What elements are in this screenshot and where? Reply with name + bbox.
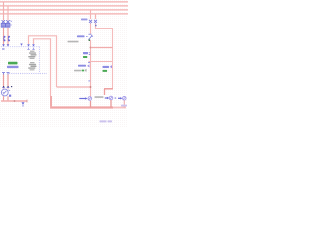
- wire below breaker pole1: [3, 28, 5, 45]
- dashed boundary bottom edge: [9, 73, 47, 75]
- wire under contact: [90, 40, 92, 97]
- device label blue box: [83, 52, 88, 54]
- tiny wire label dot: [95, 25, 97, 26]
- left bus end tick: [26, 100, 28, 103]
- mid label grey text: [74, 70, 81, 72]
- right label green: [103, 70, 108, 72]
- meter terminal dots: [3, 86, 12, 87]
- bottom left bus: [1, 100, 27, 102]
- plug triangle out2: [32, 44, 35, 47]
- device terminal 2: [7, 73, 10, 75]
- power rail N: [0, 13, 128, 15]
- control tap from L3: [90, 10, 92, 19]
- bottom bus N: [50, 106, 113, 108]
- plug triangle out1: [27, 44, 30, 47]
- meter terminals: [2, 87, 9, 89]
- power rail L3: [0, 9, 128, 11]
- wire out1 up and right: [29, 36, 57, 87]
- background grid: [0, 0, 128, 128]
- junction dot node2: [90, 86, 92, 88]
- wire out2 up and right then down to bottom bus: [34, 39, 51, 96]
- red stub A to bus: [90, 101, 92, 108]
- branch wire right at 47.5: [91, 47, 113, 49]
- gray note text: [68, 41, 79, 43]
- right label purple arrow: [110, 66, 113, 68]
- small blue tick below junction: [88, 62, 90, 63]
- drawout contact arc pole1: [4, 36, 5, 41]
- power rail L1: [0, 1, 128, 2]
- pin label specks: [2, 48, 5, 49]
- breaker Q1 pole 1: [1, 20, 5, 27]
- wire number speck: [88, 80, 90, 81]
- meter feed wire 1: [3, 75, 5, 89]
- control wire left pole down: [90, 24, 92, 34]
- mid label cluster blue text: [78, 65, 86, 67]
- faint corner text: [121, 105, 127, 107]
- connector glyph C: [115, 97, 127, 101]
- control breaker label: [81, 19, 88, 21]
- green device label: [8, 62, 18, 65]
- contact K1 symbol: [89, 34, 94, 39]
- wire tap from L2 down left: [7, 6, 9, 21]
- wire out2 lower vertical: [50, 96, 52, 106]
- bottom right faint label: [100, 120, 107, 122]
- dashed boundary right edge: [39, 47, 41, 74]
- meter aux square: [9, 95, 11, 97]
- connector glyph A: [79, 97, 91, 101]
- control breaker pole 1: [89, 20, 92, 24]
- pin ticks under out triangles: [27, 48, 34, 50]
- wire tap from L1 down left: [3, 2, 5, 21]
- device terminal 1: [2, 73, 5, 75]
- tick to wire: [89, 53, 90, 55]
- device label green: [83, 56, 87, 58]
- wire corner to connector B: [104, 88, 113, 90]
- wire below breaker pole2: [7, 28, 9, 45]
- horizontal link y61.5: [89, 61, 113, 63]
- power rail L2: [0, 5, 128, 7]
- contact K1 label: [77, 35, 85, 37]
- control tap from N: [95, 14, 97, 19]
- gray icon blob 2: [28, 62, 36, 70]
- gray icon blob 1: [28, 51, 36, 59]
- plug triangle pole2: [7, 44, 10, 47]
- connector glyph B: [105, 96, 113, 100]
- junction dot on left bus: [14, 100, 16, 102]
- control wire right pole down and right: [96, 24, 113, 62]
- control breaker pole 2: [94, 20, 97, 24]
- mid label purple arrow: [88, 65, 90, 67]
- drawout contact arc pole2: [8, 36, 9, 41]
- purple device sublabel: [7, 66, 19, 68]
- wire out1 horizontal run to node B: [57, 86, 91, 88]
- right wire down then left: [112, 62, 114, 89]
- meter feed wire 2: [7, 75, 9, 89]
- red stub B to bus: [110, 100, 112, 108]
- PE arrow below bus: [22, 102, 25, 105]
- meter down stubs: [3, 96, 5, 100]
- mid label green mark: [82, 70, 85, 72]
- wire drop into connector B: [104, 89, 106, 95]
- plug triangle pole1: [2, 44, 5, 47]
- plug triangle middle: [20, 44, 22, 46]
- breaker Q1 pole 2: [6, 20, 12, 27]
- mid label grey cross: [85, 69, 87, 71]
- energy meter M1: [1, 89, 10, 96]
- linkage dashed line top: [1, 46, 40, 48]
- bottom bus N faint right end: [113, 107, 126, 109]
- gray text near connector B: [95, 96, 104, 98]
- red stub C to bus: [123, 100, 125, 107]
- green tick under contact: [89, 39, 91, 41]
- junction dot node1: [90, 47, 92, 49]
- right label cluster blue text: [103, 66, 110, 68]
